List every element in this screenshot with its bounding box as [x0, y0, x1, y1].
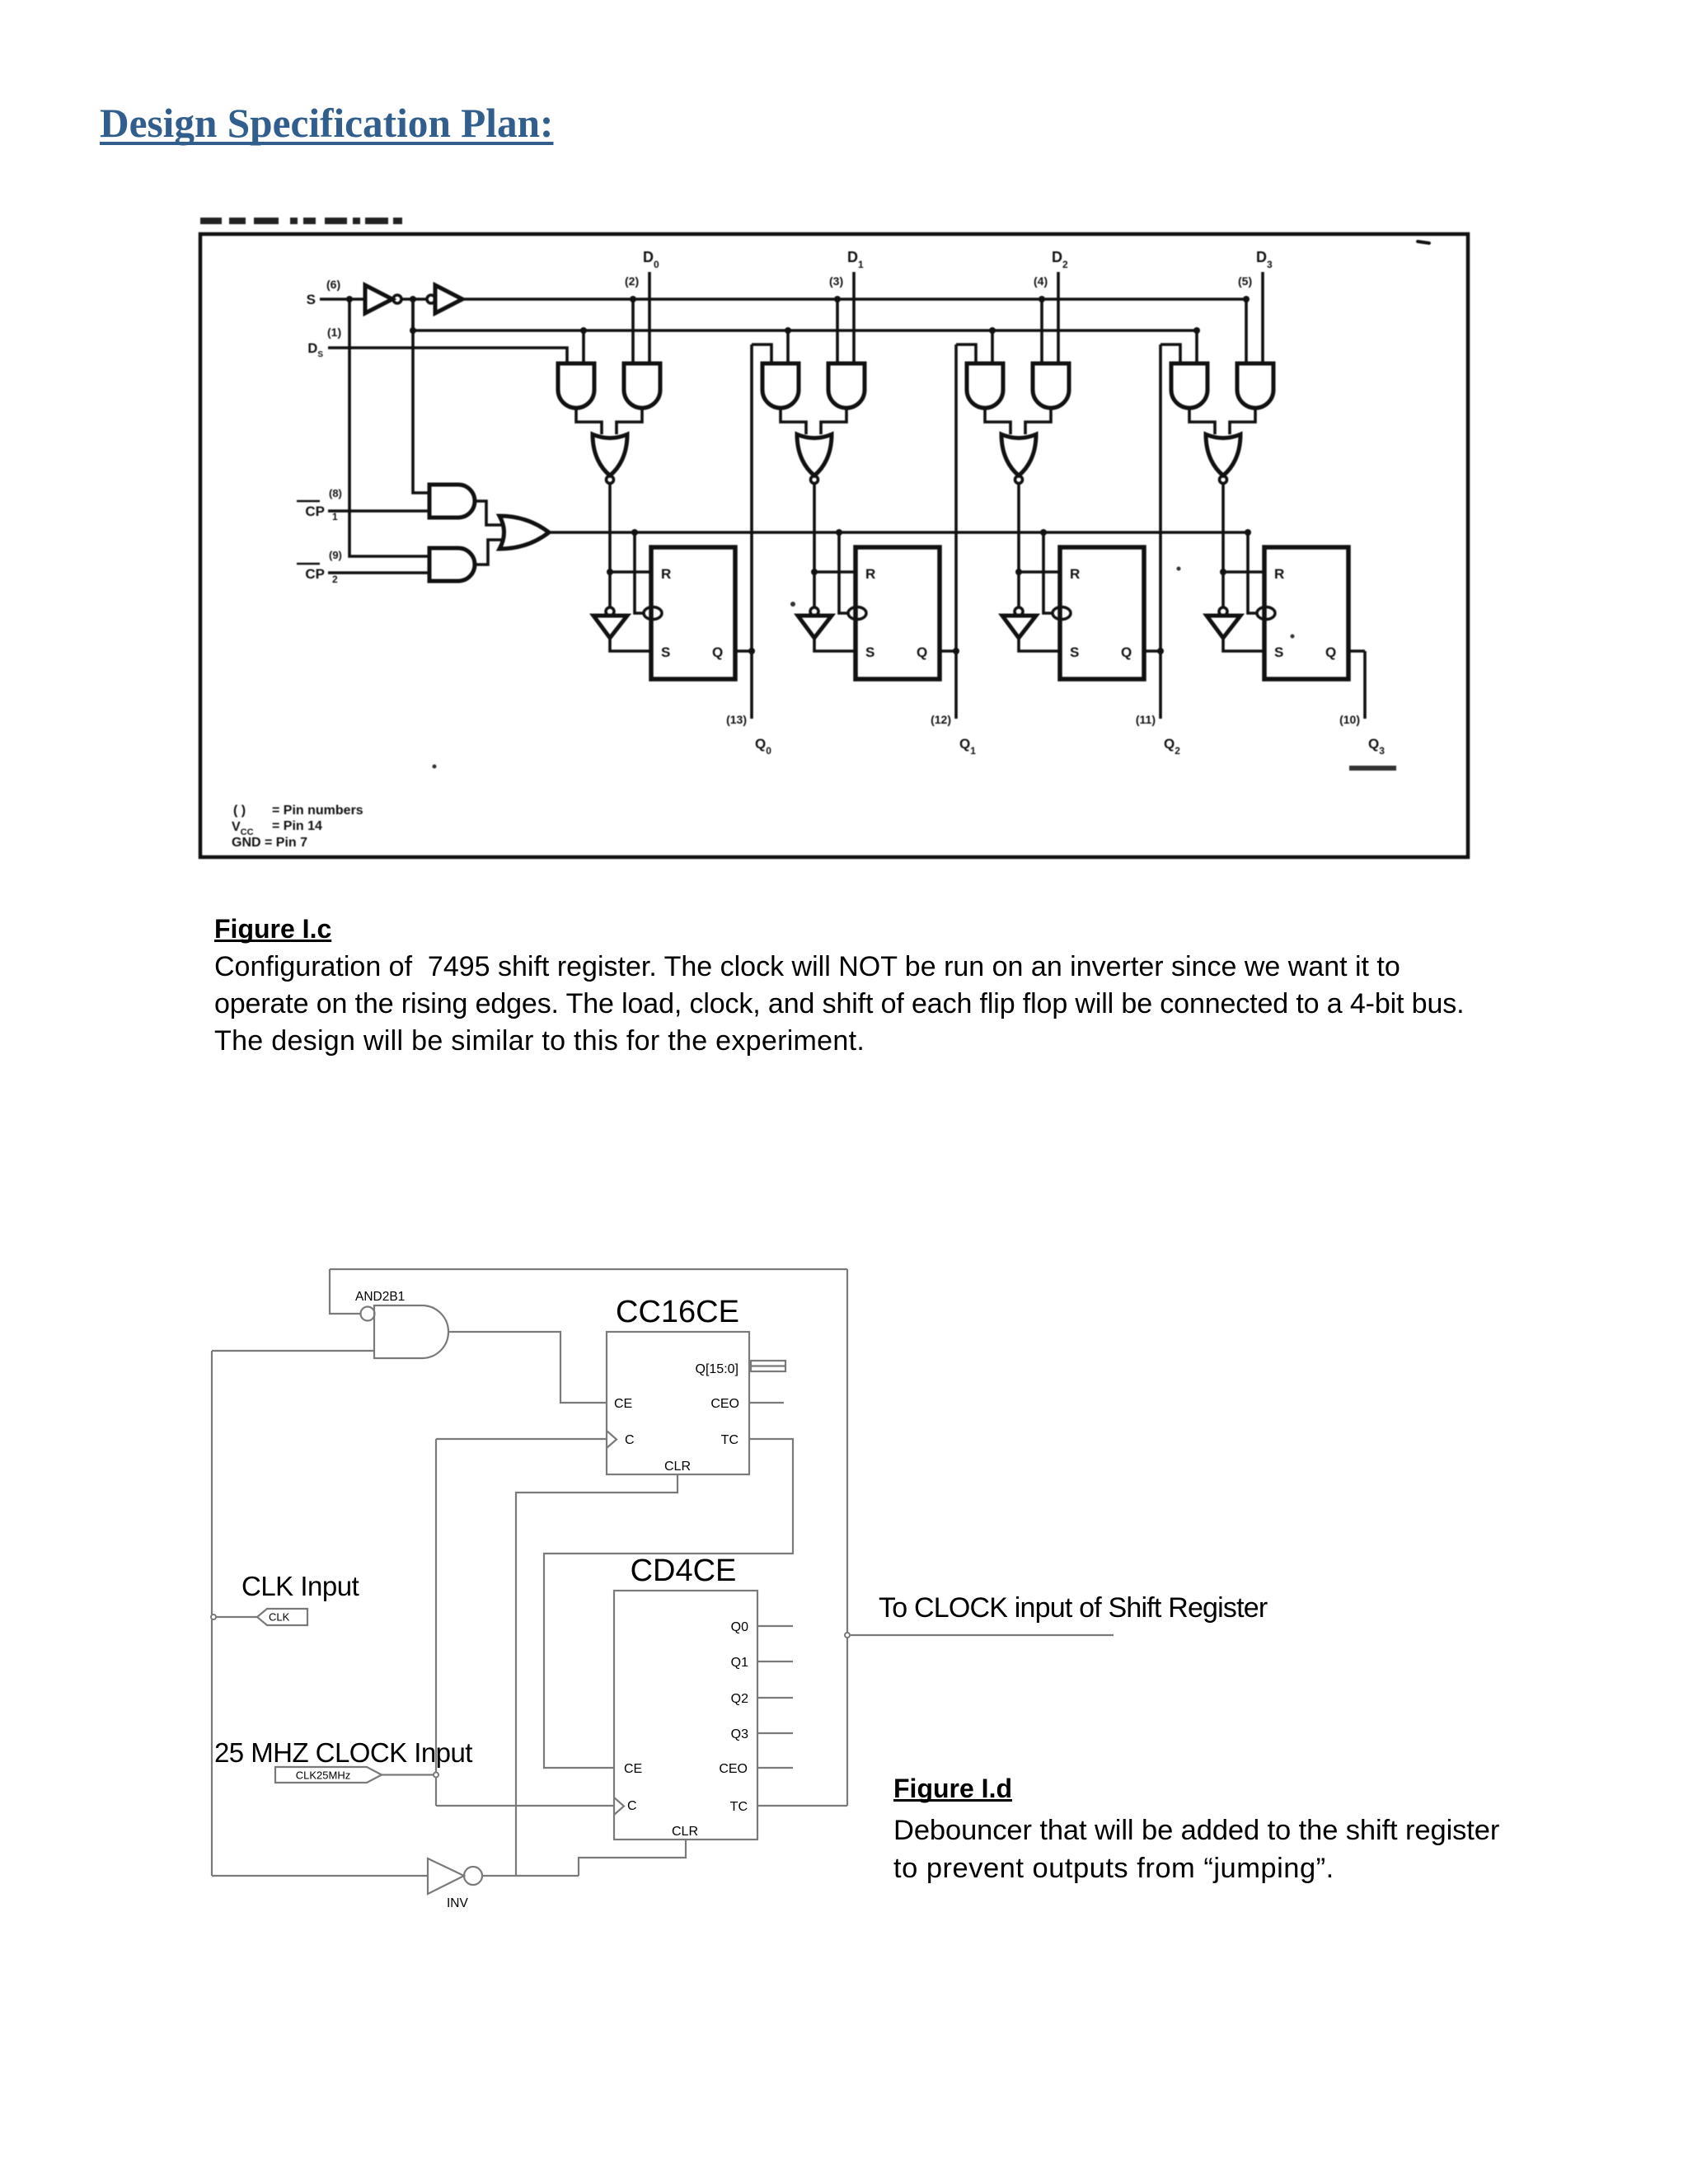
clock bubble stage 2	[1053, 607, 1071, 620]
svg-text:S: S	[307, 292, 316, 307]
wire to set inverter stage 0	[608, 572, 612, 607]
junction clock drop stage 0	[631, 529, 638, 536]
inverter stage 1 set path	[810, 607, 818, 616]
scan speck marks	[1416, 240, 1431, 245]
svg-text:2: 2	[332, 574, 338, 585]
svg-text:1: 1	[332, 511, 338, 523]
inverter stage 0 set path	[606, 607, 614, 616]
svg-text:Q2: Q2	[731, 1692, 748, 1706]
svg-text:Q1: Q1	[731, 1656, 748, 1670]
clock bubble stage 1	[848, 607, 866, 620]
wire Q0 to next stage serial AND	[752, 344, 771, 363]
svg-text:Q3: Q3	[1368, 736, 1385, 757]
svg-text:( ): ( )	[233, 804, 246, 818]
wire to set inverter stage 3	[1221, 572, 1225, 607]
wire CP1 input	[328, 509, 429, 513]
AND gate stage 3 serial	[1171, 363, 1207, 408]
svg-text:AND2B1: AND2B1	[355, 1290, 405, 1304]
wire load drop stage 3	[1195, 330, 1198, 363]
svg-text:C: C	[625, 1433, 635, 1447]
and-gate U1 AND2B1	[361, 1307, 375, 1321]
inverter stage 3 set path	[1219, 607, 1227, 616]
wire stage 1 serial AND to NOR	[781, 408, 806, 434]
svg-text:D0: D0	[643, 249, 659, 270]
svg-text:= Pin numbers: = Pin numbers	[272, 804, 363, 818]
junction between inverters	[410, 296, 416, 302]
svg-text:TC: TC	[721, 1433, 738, 1447]
svg-text:(1): (1)	[327, 326, 341, 339]
clock bubble stage 0	[644, 607, 662, 620]
AND gate stage 1 parallel	[828, 363, 865, 408]
junction clock drop stage 3	[1245, 529, 1251, 536]
svg-text:Q3: Q3	[731, 1727, 748, 1741]
wire NOR out stage 2	[1017, 484, 1020, 572]
wire to set inverter stage 1	[813, 572, 816, 607]
wire left CLK rail	[211, 1351, 213, 1876]
stub Q3	[757, 1732, 793, 1734]
svg-text:Q: Q	[917, 644, 927, 660]
svg-text:S: S	[1274, 644, 1283, 660]
wire inverter to S input stage 2	[1019, 638, 1060, 651]
wire clock drop stage 0	[635, 532, 645, 613]
wire inverter to S input stage 3	[1223, 638, 1264, 651]
wire right feedback vertical	[846, 1269, 848, 1806]
wire D2 input	[1057, 272, 1060, 363]
junction clock drop stage 2	[1040, 529, 1047, 536]
NOR gate stage 1	[797, 434, 832, 476]
wire mode line (S buffered)	[462, 298, 1246, 301]
wire Q2 vertical	[1159, 344, 1162, 719]
AND gate stage 0 parallel	[624, 363, 660, 408]
AND gate stage 2 serial	[967, 363, 1003, 408]
stub CEO CD4CE	[757, 1767, 793, 1769]
wire load drop stage 1	[786, 330, 790, 363]
AND gate clock CP2	[429, 548, 475, 581]
wire Q output stage 3	[1348, 649, 1365, 653]
wire CP2 AND output to OR	[475, 540, 501, 565]
wire to R input stage 2	[1019, 570, 1060, 574]
input marker CLK	[257, 1609, 307, 1625]
wire stage 3 parallel AND to NOR	[1230, 408, 1255, 434]
wire load drop stage 2	[991, 330, 994, 363]
flip-flop U3 box	[1264, 547, 1348, 679]
stub Q0	[757, 1625, 793, 1627]
svg-text:(5): (5)	[1238, 274, 1252, 288]
wire to CLOCK of shift register	[851, 1634, 1114, 1636]
wire C CC16CE to clock net	[436, 1438, 607, 1440]
wire D3 input	[1261, 272, 1264, 363]
svg-text:R: R	[1274, 566, 1284, 582]
bus stub Q[15:0]	[751, 1361, 785, 1371]
flip-flop U2 box	[1060, 547, 1144, 679]
inverter stage 2 set path	[1015, 607, 1023, 616]
wire CP1 AND output to OR	[475, 501, 501, 525]
wire stage 1 parallel AND to NOR	[821, 408, 846, 434]
wire clock drop stage 3	[1248, 532, 1258, 613]
wire Q1 vertical	[954, 344, 958, 719]
wire CP2 input	[328, 571, 429, 574]
wire mode drop stage 0	[631, 299, 635, 363]
caption paragraph	[214, 949, 1464, 1060]
wire inverted S to CP1 AND gate	[413, 299, 429, 493]
svg-text:Q2: Q2	[1164, 736, 1180, 757]
svg-text:(9): (9)	[329, 549, 342, 561]
flip-flop U1 box	[856, 547, 940, 679]
wire clock drop stage 1	[839, 532, 849, 613]
svg-text:(3): (3)	[829, 274, 843, 288]
wire CLR CC16CE to INV output	[516, 1474, 678, 1876]
wire feedback top	[330, 1268, 847, 1270]
wire NOR out stage 0	[608, 484, 612, 572]
svg-text:(13): (13)	[726, 713, 747, 726]
stub Q2	[757, 1697, 793, 1699]
wire CLR CD4CE to INV output	[579, 1840, 686, 1876]
svg-text:Q0: Q0	[731, 1620, 748, 1634]
wire Q output stage 1	[940, 649, 956, 653]
svg-text:C: C	[627, 1799, 637, 1813]
svg-text:CLR: CLR	[664, 1460, 691, 1474]
svg-text:R: R	[1070, 566, 1080, 582]
svg-text:S: S	[661, 644, 670, 660]
smeared LOGIC DIAGRAM title dashes	[200, 218, 222, 224]
wire S to CP2 AND gate	[349, 299, 429, 556]
clock bubble stage 3	[1257, 607, 1275, 620]
wire stage 0 serial AND to NOR	[576, 408, 602, 434]
AND gate stage 0 serial	[558, 363, 594, 408]
svg-text:D3: D3	[1256, 249, 1273, 270]
wire clock net vertical	[435, 1439, 437, 1806]
junction clock drop stage 1	[836, 529, 842, 536]
wire D1 input	[852, 272, 856, 363]
wire to R input stage 3	[1223, 570, 1264, 574]
wire to set inverter stage 2	[1017, 572, 1020, 607]
svg-text:(10): (10)	[1339, 713, 1360, 726]
caption paragraph figure I.d	[893, 1811, 1499, 1887]
wire TC CD4CE to feedback	[757, 1805, 847, 1807]
svg-text:VCC: VCC	[232, 820, 254, 837]
clock pin triangle CC16CE	[607, 1431, 617, 1448]
svg-text:CP: CP	[305, 566, 325, 582]
svg-text:Q1: Q1	[959, 736, 976, 757]
wire AND2B1 out to CC16CE CE	[448, 1332, 607, 1403]
svg-text:CEO: CEO	[719, 1762, 748, 1776]
wire stage 0 parallel AND to NOR	[617, 408, 642, 434]
wire to R input stage 0	[610, 570, 651, 574]
wire Q1 to next stage serial AND	[956, 344, 976, 363]
wire CLK25MHz to clock net	[382, 1774, 436, 1775]
svg-text:(8): (8)	[329, 487, 342, 499]
svg-text:= Pin 14: = Pin 14	[272, 819, 322, 833]
wire clock drop stage 2	[1043, 532, 1053, 613]
wire to R input stage 1	[814, 570, 856, 574]
svg-text:CLK25MHz: CLK25MHz	[296, 1769, 350, 1782]
svg-text:Q: Q	[1325, 644, 1336, 660]
wire load drop stage 0	[582, 330, 585, 363]
caption Figure I.c	[214, 914, 331, 944]
wire Q2 to next stage serial AND	[1160, 344, 1180, 363]
svg-text:R: R	[661, 566, 671, 582]
wire Q output stage 0	[735, 649, 752, 653]
svg-text:(12): (12)	[931, 713, 951, 726]
heading Design Specification Plan	[100, 100, 553, 147]
NOR gate stage 2	[1001, 434, 1036, 476]
svg-text:(6): (6)	[326, 278, 340, 291]
svg-text:(4): (4)	[1034, 274, 1048, 288]
AND gate stage 2 parallel	[1033, 363, 1069, 408]
NOR gate stage 0	[593, 434, 627, 476]
svg-text:INV: INV	[447, 1896, 469, 1910]
svg-text:DS: DS	[307, 341, 323, 359]
wire stage 3 serial AND to NOR	[1189, 408, 1215, 434]
svg-text:CE: CE	[614, 1397, 632, 1411]
wire mode drop stage 2	[1040, 299, 1043, 363]
wire stage 2 serial AND to NOR	[985, 408, 1010, 434]
flip-flop U0 box	[651, 547, 735, 679]
wire S input	[320, 298, 365, 301]
wire clock net to C CD4CE	[436, 1805, 614, 1807]
wire DS input to stage 1 AND	[328, 348, 567, 363]
svg-text:GND = Pin 7: GND = Pin 7	[232, 836, 307, 850]
wire TC CC16CE to CE CD4CE	[544, 1439, 793, 1768]
stub CEO CC16CE	[749, 1402, 784, 1404]
caption Figure I.d	[893, 1774, 1012, 1804]
junction clock input	[211, 1615, 216, 1619]
figure border frame of scanned 7495 logic diagram	[200, 234, 1468, 857]
wire NOR out stage 1	[813, 484, 816, 572]
clock pin triangle CD4CE	[614, 1797, 624, 1815]
svg-text:Q: Q	[1121, 644, 1132, 660]
svg-text:CD4CE: CD4CE	[631, 1554, 737, 1588]
svg-text:CC16CE: CC16CE	[616, 1295, 739, 1329]
wire inverter to S input stage 1	[814, 638, 856, 651]
OR gate clock combine	[499, 516, 549, 549]
counter U3 CD4CE box	[614, 1591, 757, 1840]
svg-text:Q: Q	[712, 644, 723, 660]
label To CLOCK input of Shift Register	[879, 1592, 1267, 1624]
stub Q1	[757, 1661, 793, 1662]
label CLK Input	[241, 1571, 359, 1602]
svg-text:Q0: Q0	[755, 736, 771, 757]
svg-text:S: S	[865, 644, 874, 660]
svg-text:Q[15:0]: Q[15:0]	[696, 1362, 738, 1376]
wire between inverters	[401, 298, 427, 301]
AND gate stage 3 parallel	[1237, 363, 1273, 408]
label 25 MHZ CLOCK Input	[214, 1737, 472, 1769]
wire mode drop stage 3	[1245, 299, 1248, 363]
svg-text:S: S	[1070, 644, 1079, 660]
wire Q0 vertical	[750, 344, 753, 719]
inverter 1 on S	[365, 285, 392, 313]
svg-text:CE: CE	[624, 1762, 642, 1776]
wire CLK rail to AND2B1	[212, 1350, 374, 1352]
wire to AND2B1 inverted input	[330, 1269, 360, 1314]
svg-text:CLK: CLK	[269, 1611, 290, 1624]
svg-text:CP: CP	[305, 504, 325, 519]
inverter U4 INV	[428, 1858, 464, 1894]
wire stage 2 parallel AND to NOR	[1025, 408, 1051, 434]
wire mode drop stage 1	[836, 299, 839, 363]
AND gate stage 1 serial	[762, 363, 799, 408]
AND gate clock CP1	[429, 485, 475, 518]
svg-text:D1: D1	[847, 249, 864, 270]
svg-text:TC: TC	[730, 1800, 748, 1814]
wire Q output stage 2	[1144, 649, 1160, 653]
wire rail to INV	[212, 1875, 428, 1877]
svg-text:(2): (2)	[625, 274, 639, 288]
wire load-mode bus	[410, 327, 416, 334]
scanned 7495 shift-register figure	[165, 206, 1525, 907]
inverter 2 on S	[427, 295, 435, 303]
wire Q3 vertical	[1363, 651, 1367, 719]
svg-text:CLR: CLR	[672, 1825, 698, 1839]
wire NOR out stage 3	[1221, 484, 1225, 572]
svg-text:CEO: CEO	[710, 1397, 739, 1411]
wire CLK tag	[216, 1616, 257, 1618]
wire inverter to S input stage 0	[610, 638, 651, 651]
junction clock net	[434, 1773, 438, 1778]
NOR gate stage 3	[1206, 434, 1240, 476]
junction to-clock tap	[845, 1633, 850, 1638]
svg-text:(11): (11)	[1136, 713, 1156, 726]
debouncer schematic figure I.d	[198, 1236, 1154, 1920]
wire clock bus	[549, 531, 1248, 534]
svg-text:D2: D2	[1052, 249, 1068, 270]
input marker CLK25MHz	[275, 1767, 382, 1783]
junction S wire	[346, 296, 353, 302]
counter U2 CC16CE box	[607, 1332, 749, 1474]
wire INV output	[482, 1875, 579, 1877]
svg-text:R: R	[865, 566, 875, 582]
wire D0 input	[648, 272, 651, 363]
